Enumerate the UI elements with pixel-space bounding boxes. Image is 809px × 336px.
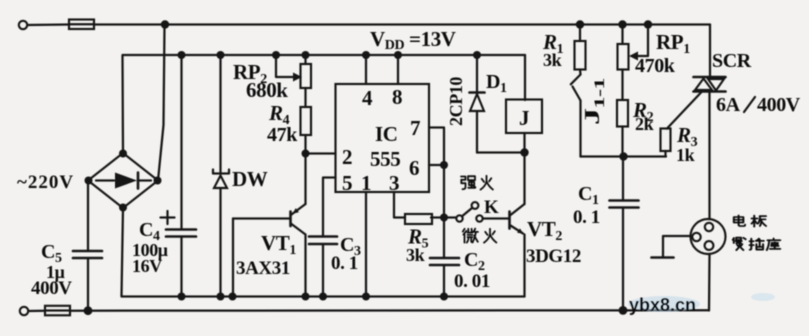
wire low link [581,155,667,157]
svg-text:16V: 16V [132,256,162,276]
node D1 top [473,51,481,59]
svg-text:47k: 47k [267,124,298,146]
pin 4 [365,55,367,84]
node collector VT2 [520,148,528,156]
svg-text:7: 7 [410,116,420,140]
label dianban [734,215,766,226]
fuse FU1 [69,20,94,30]
relay J [506,100,542,134]
wire inner ground rail [122,208,525,297]
label weihuo [463,229,497,243]
diode D1 [470,55,485,153]
node DW top [217,51,225,59]
svg-text:~220V: ~220V [17,172,74,193]
capacitor C1 [610,157,639,311]
svg-text:J: J [519,106,529,130]
node R4 bottom / pin2 [302,150,310,158]
node RP2 top [302,51,310,59]
node RP2 wiper [272,51,280,59]
svg-text:3k: 3k [406,245,425,265]
node C4 top [178,51,186,59]
wire gate [667,93,701,129]
node gnd C3 [319,293,327,301]
node R1 top [576,20,584,28]
node gnd DW [217,293,225,301]
svg-text:DW: DW [232,167,268,191]
resistor R1 [575,25,586,75]
transistor VT2 [510,153,525,297]
node gnd VT1 base [229,293,237,301]
wire top rail left [28,23,70,26]
wire bottom rail [70,309,709,312]
watermark ybx8.cn [628,293,775,315]
node pin4 top [362,51,370,59]
resistor R2 [617,100,628,127]
resistor R3 [661,129,671,157]
svg-text:3k: 3k [543,50,562,70]
svg-text:VDD =13V: VDD =13V [370,27,456,53]
wire VDD corner to relay J [524,55,526,100]
fuse box bottom [45,306,70,316]
ground [652,236,691,258]
svg-text:2k: 2k [635,114,654,134]
node gnd C2 [440,293,448,301]
svg-text:1k: 1k [676,145,695,165]
svg-text:2CP10: 2CP10 [446,77,466,126]
node gnd pin1 [362,293,370,301]
svg-text:555: 555 [370,147,400,171]
svg-text:0. 01: 0. 01 [454,271,490,292]
node gnd VT1 emitter [302,293,310,301]
svg-text:680k: 680k [246,78,288,102]
resistor R5 [405,214,432,224]
wire top AC rail [94,23,710,25]
svg-text:SCR: SCR [712,50,752,72]
node C1 top [619,152,627,160]
svg-text:IC: IC [375,122,398,146]
svg-text:0. 1: 0. 1 [573,207,600,228]
svg-text:3DG12: 3DG12 [526,246,581,267]
op IC 555 box [336,84,430,192]
potentiometer RP2 [276,55,311,107]
terminal top-left [19,21,27,29]
node RP1 wiper top [644,20,652,28]
bridge rectifier [85,150,162,212]
label baochazuo [733,238,780,250]
zener DW [213,55,229,297]
wire AC to bridge right [158,25,165,181]
svg-text:0. 1: 0. 1 [331,253,358,274]
switch K [456,202,509,222]
svg-text:470k: 470k [635,55,676,77]
svg-text:2: 2 [342,145,352,169]
socket [691,219,726,311]
svg-text:5: 5 [342,171,352,195]
svg-text:8: 8 [392,85,402,109]
node gnd C4 [178,293,186,301]
svg-text:6: 6 [409,156,419,180]
node pin6 [440,161,448,169]
triac SCR [694,25,726,220]
node C5 bottom [84,306,93,315]
capacitor C5 [73,183,102,311]
node top junction [161,20,169,28]
svg-text:400V: 400V [31,278,72,299]
capacitor C4 [161,55,197,297]
switch J1-1 [571,75,581,157]
svg-text:6A: 6A [716,94,741,116]
svg-text:3AX31: 3AX31 [236,258,290,279]
capacitor C3 [309,237,337,297]
resistor R4 [301,107,312,135]
wire bridge top to VDD rail [123,55,526,153]
label qianghuo [461,176,493,190]
transistor VT1 [233,154,306,297]
node C1 bottom [619,306,628,315]
svg-text:ybx8.cn: ybx8.cn [629,295,696,315]
wire D1 bottom link [477,151,525,153]
svg-text:4: 4 [362,86,373,110]
wire bottom left [29,310,46,312]
node timing [440,214,448,222]
svg-text:K: K [484,197,499,218]
node RP1 top [618,20,626,28]
svg-text:400V: 400V [757,94,801,116]
node pin8 top [394,51,402,59]
terminal bottom-left [20,307,28,315]
potentiometer RP1 [618,25,649,101]
capacitor C2 [430,258,459,297]
pin 8 [397,55,399,84]
